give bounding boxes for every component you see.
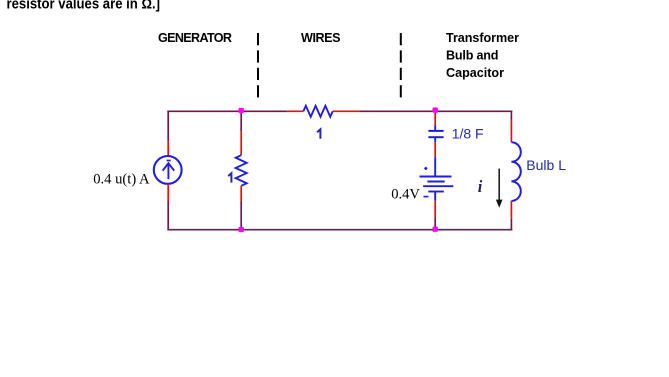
svg-text:GENERATOR: GENERATOR bbox=[158, 31, 232, 45]
node bottom of battery branch bbox=[433, 227, 438, 232]
current arrow i bbox=[496, 169, 503, 208]
battery label 0.4V bbox=[391, 186, 420, 202]
separator dashed line 1 bbox=[257, 33, 259, 98]
resistor R1 label 1 bbox=[228, 173, 231, 182]
inductor L1 Bulb L bbox=[511, 142, 520, 201]
title text (cut off at top) bbox=[7, 0, 161, 13]
svg-text:0.4 u(t) A: 0.4 u(t) A bbox=[93, 172, 150, 188]
current label i bbox=[478, 177, 483, 196]
wire: red lead from top node to capacitor bbox=[434, 111, 436, 125]
node bottom of R1 branch bbox=[239, 227, 244, 232]
resistor R2 value 1 (horizontal, top rail) bbox=[303, 106, 332, 117]
wire: red lead below current source bbox=[167, 184, 169, 201]
wire: red lead above R1 bbox=[240, 131, 242, 155]
wire: top rail red lead left of R2 bbox=[287, 110, 304, 112]
resistor R1 value 1 (vertical) bbox=[236, 155, 247, 186]
node top of battery branch bbox=[433, 107, 438, 112]
section label Transformer Bulb and Capacitor bbox=[446, 31, 519, 80]
battery minus mark bbox=[424, 196, 429, 198]
separator dashed line 2 bbox=[400, 33, 402, 98]
current source label 0.4 u(t) A bbox=[93, 172, 150, 188]
wire: R1 branch maroon upper bbox=[240, 111, 242, 132]
section label WIRES bbox=[301, 31, 341, 45]
svg-text:0.4V: 0.4V bbox=[391, 186, 420, 202]
svg-text:Bulb L: Bulb L bbox=[526, 157, 566, 173]
svg-text:Transformer: Transformer bbox=[446, 31, 519, 45]
svg-text:Capacitor: Capacitor bbox=[446, 66, 504, 80]
wire: red lead below battery bbox=[434, 201, 436, 219]
battery plus mark bbox=[424, 167, 427, 170]
node top of R1 branch bbox=[239, 108, 244, 113]
svg-text:Bulb and: Bulb and bbox=[446, 49, 499, 63]
wire: battery branch maroon lower bbox=[434, 219, 436, 231]
wire: left branch maroon lower bbox=[167, 202, 169, 231]
wire: red lead below inductor bbox=[510, 201, 512, 219]
resistor R2 label 1 bbox=[317, 129, 320, 138]
wire: R1 branch maroon lower bbox=[240, 202, 242, 231]
wire: red lead above current source bbox=[167, 141, 169, 155]
svg-text:i: i bbox=[478, 177, 483, 196]
wire: right branch maroon lower bbox=[510, 219, 512, 231]
wire: red lead between capacitor and battery bbox=[434, 142, 436, 157]
capacitor label 1/8 F bbox=[452, 126, 484, 142]
wire: right branch maroon upper bbox=[510, 111, 512, 120]
inductor label Bulb L bbox=[526, 157, 566, 173]
svg-text:resistor values are in Ω.]: resistor values are in Ω.] bbox=[7, 0, 161, 13]
wire: top rail red lead right of R2 bbox=[333, 110, 360, 112]
wire: top rail maroon right part bbox=[360, 110, 513, 112]
battery V1 0.4V bbox=[420, 157, 454, 201]
svg-text:1/8 F: 1/8 F bbox=[452, 126, 484, 142]
section label GENERATOR bbox=[158, 31, 232, 45]
wire: bottom rail maroon bbox=[167, 229, 512, 231]
capacitor C1 1/8 F bbox=[428, 125, 443, 142]
wire: red lead below R1 bbox=[240, 186, 242, 202]
wire: top rail maroon left part bbox=[167, 110, 286, 112]
wire: red lead above inductor bbox=[510, 120, 512, 143]
wire: left branch maroon upper bbox=[167, 111, 169, 142]
svg-text:WIRES: WIRES bbox=[301, 31, 341, 45]
current source I1 0.4 u(t) A bbox=[154, 156, 182, 184]
